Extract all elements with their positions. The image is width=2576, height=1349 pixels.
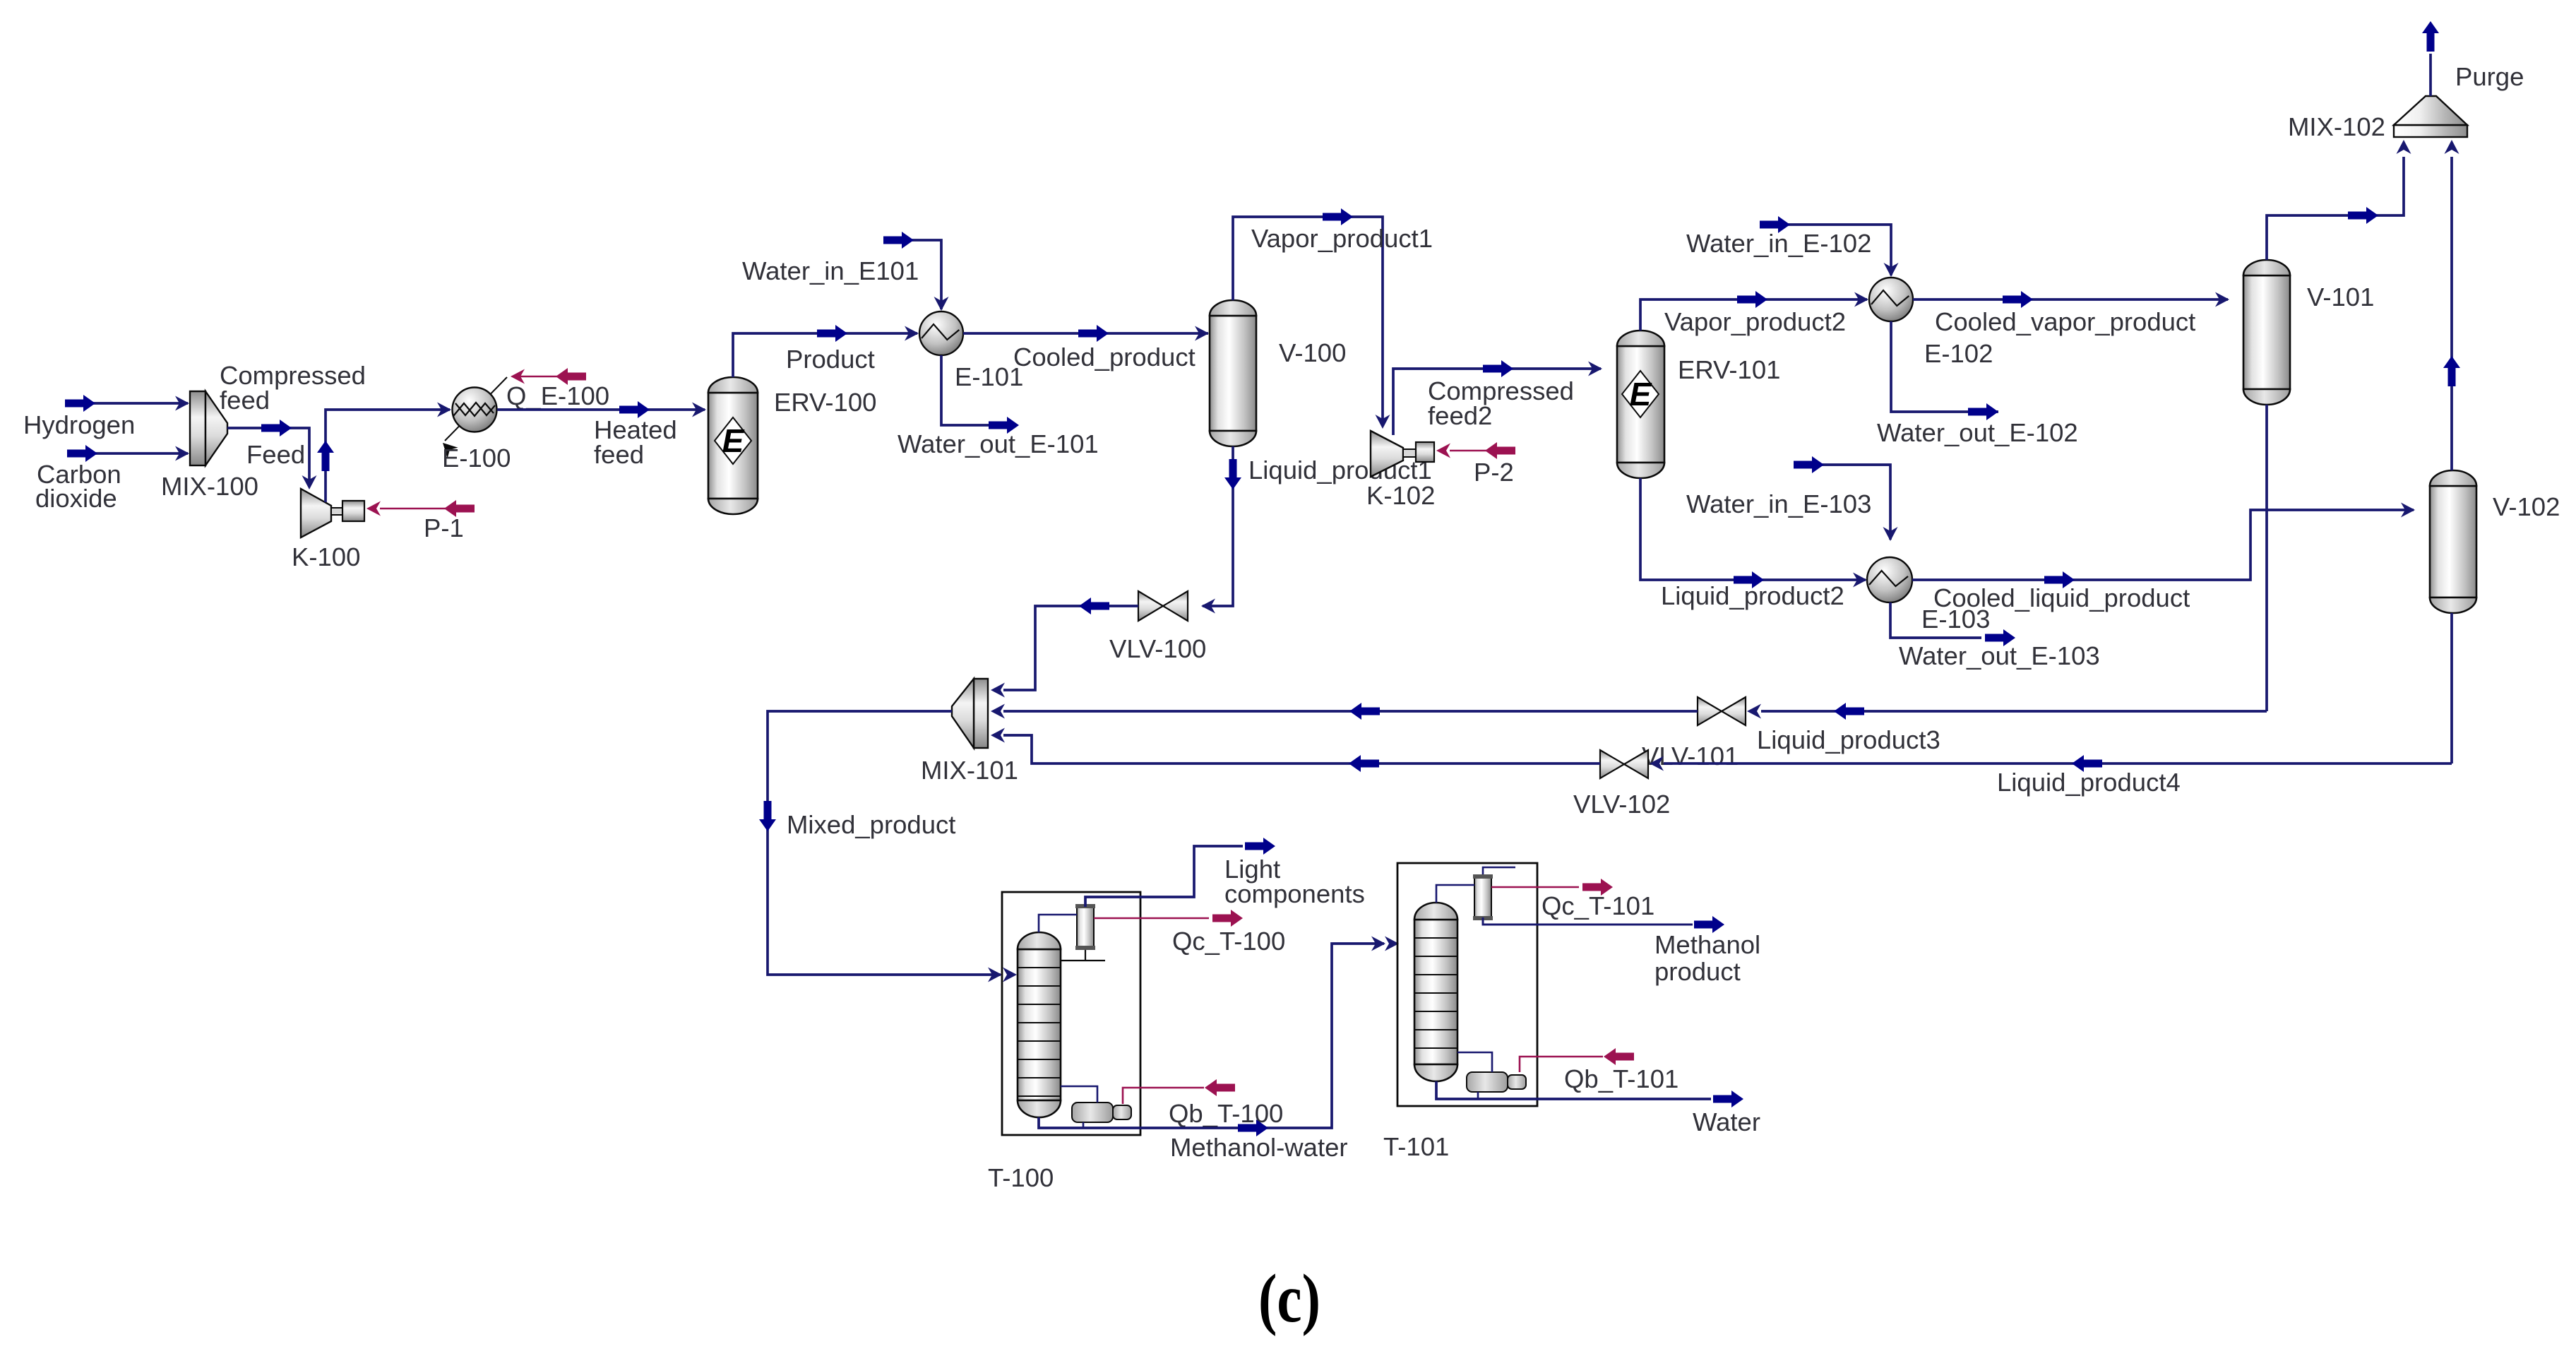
svg-text:Liquid_product2: Liquid_product2 [1661, 581, 1844, 610]
node Cooled_product label [1013, 343, 1195, 372]
svg-text:Water: Water [1693, 1107, 1760, 1136]
wire Cooled_product stream [963, 325, 1209, 342]
wire Heated feed stream [497, 401, 706, 418]
reactor ERV-101 [1617, 331, 1664, 478]
svg-text:Vapor_product2: Vapor_product2 [1664, 307, 1846, 336]
wire Liquid_product1 tail to MIX-101 [991, 598, 1138, 698]
svg-text:V-101: V-101 [2307, 283, 2374, 311]
valve VLV-100 [1138, 591, 1188, 621]
node Qb_T-100 label [1169, 1099, 1283, 1128]
svg-text:P-2: P-2 [1474, 458, 1514, 487]
svg-text:Cooled_vapor_product: Cooled_vapor_product [1935, 307, 2195, 336]
node T-101 label [1383, 1132, 1449, 1161]
wire V-101 bottoms [2265, 405, 2268, 711]
node Compressed feed2 label [1428, 376, 1574, 430]
wire Hydrogen stream [65, 395, 189, 412]
node VLV-101 label [1642, 742, 1739, 771]
node V-100 label [1279, 338, 1346, 367]
node Light components label [1224, 855, 1365, 908]
svg-text:Water_in_E-103: Water_in_E-103 [1686, 489, 1871, 518]
wire Liquid_product4 stream [991, 728, 2452, 773]
wire Methanol-water stream [1039, 937, 1399, 1137]
node Heated feed label [594, 415, 677, 469]
wire Water_out_E-102 stream [1891, 321, 1998, 420]
node Water label [1693, 1107, 1760, 1136]
node K-102 label [1366, 481, 1435, 510]
svg-text:T-100: T-100 [988, 1163, 1054, 1192]
svg-text:ERV-100: ERV-100 [774, 388, 876, 417]
svg-text:Qc_T-101: Qc_T-101 [1542, 891, 1654, 920]
wire Q_E-100 energy stream [511, 368, 586, 385]
wire T-101 bottoms to reboiler [1457, 1052, 1492, 1072]
valve VLV-102 [1600, 750, 1648, 778]
node MIX-100 label [161, 472, 258, 501]
node ERV-101 label [1678, 355, 1780, 384]
wire Cooled_liquid_product stream [1912, 503, 2415, 589]
wire V-101 overhead to MIX-102 [2267, 140, 2411, 260]
node Liquid_product2 label [1661, 581, 1844, 610]
svg-text:Methanol-water: Methanol-water [1170, 1133, 1348, 1162]
wire Qb_T-101 energy stream [1520, 1048, 1634, 1072]
node Product label [786, 345, 875, 374]
node ERV-100 label [774, 388, 876, 417]
wire T-101 condenser stub [1483, 867, 1515, 874]
svg-text:Water_in_E101: Water_in_E101 [742, 256, 919, 285]
node V-102 label [2493, 492, 2560, 521]
node Hydrogen label [23, 410, 135, 439]
cooler E-101 [919, 311, 963, 355]
wire Liquid_product3 stream [991, 703, 2267, 720]
svg-text:E: E [1630, 376, 1652, 412]
reboiler T-100 [1072, 1103, 1131, 1122]
node Vapor_product2 label [1664, 307, 1846, 336]
node Water_in_E-103 label [1686, 489, 1871, 518]
wire V-102 overhead to MIX-102 [2443, 140, 2460, 470]
svg-text:Mixed_product: Mixed_product [787, 810, 955, 839]
svg-text:ERV-101: ERV-101 [1678, 355, 1780, 384]
svg-text:components: components [1224, 879, 1365, 908]
svg-text:Cooled_product: Cooled_product [1013, 343, 1195, 372]
svg-text:Purge: Purge [2455, 62, 2524, 91]
node Cooled_liquid_product label [1933, 583, 2190, 612]
svg-text:Methanol: Methanol [1654, 930, 1760, 959]
svg-text:(c): (c) [1258, 1261, 1320, 1337]
svg-text:Feed: Feed [246, 440, 305, 469]
wire Qc_T-100 energy stream [1094, 910, 1243, 927]
svg-text:dioxide: dioxide [35, 484, 117, 513]
node Carbon dioxide label [35, 460, 121, 513]
wire T-100 tower to condenser [1039, 915, 1077, 932]
node Qb_T-101 label [1564, 1064, 1678, 1093]
heater E-100 [438, 377, 507, 458]
svg-text:MIX-102: MIX-102 [2288, 112, 2385, 141]
wire Light components stream [1085, 838, 1275, 907]
node Liquid_product3 label [1757, 725, 1940, 754]
svg-text:VLV-100: VLV-100 [1109, 634, 1206, 663]
wire Feed stream [227, 420, 317, 489]
svg-text:MIX-100: MIX-100 [161, 472, 258, 501]
wire Product stream [733, 325, 919, 377]
column T-100 subflowsheet box [1002, 892, 1140, 1135]
node Purge label [2455, 62, 2524, 91]
node Q_E-100 label [506, 381, 609, 410]
column T-101 subflowsheet box [1397, 863, 1537, 1106]
svg-text:VLV-102: VLV-102 [1573, 790, 1670, 819]
svg-text:Water_out_E-101: Water_out_E-101 [898, 429, 1099, 458]
node E-100 label [442, 444, 511, 473]
mixer MIX-100 [190, 391, 227, 465]
wire Vapor_product1 stream [1233, 208, 1390, 429]
separator V-101 [2243, 260, 2290, 405]
svg-text:Water_out_E-102: Water_out_E-102 [1877, 418, 2078, 447]
svg-text:Liquid_product3: Liquid_product3 [1757, 725, 1940, 754]
wire Compressed feed stream [317, 403, 451, 503]
node Mixed_product label [787, 810, 955, 839]
wire Water_out_E-103 stream [1890, 602, 2015, 646]
wire Qc_T-101 energy stream [1491, 879, 1613, 896]
svg-text:Vapor_product1: Vapor_product1 [1251, 224, 1433, 253]
mixer MIX-102 [2394, 96, 2467, 137]
node P-2 label [1474, 458, 1514, 487]
node V-101 label [2307, 283, 2374, 311]
node T-100 label [988, 1163, 1054, 1192]
wire V-102 bottoms [2450, 613, 2453, 763]
node Water_out_E-103 label [1899, 641, 2100, 670]
svg-text:Product: Product [786, 345, 875, 374]
node VLV-100 label [1109, 634, 1206, 663]
wire Liquid_product1 stream [1201, 446, 1241, 614]
node E-102 label [1924, 339, 1993, 368]
svg-text:K-100: K-100 [292, 542, 360, 571]
node Vapor_product1 label [1251, 224, 1433, 253]
node VLV-102 label [1573, 790, 1670, 819]
wire T-100 reboiler drain [1083, 1122, 1085, 1128]
node Compressed feed label [220, 361, 366, 415]
svg-text:product: product [1654, 957, 1741, 986]
node Water_in_E101 label [742, 256, 919, 285]
node Water_out_E-102 label [1877, 418, 2078, 447]
cooler E-102 [1869, 278, 1913, 321]
valve VLV-101 [1698, 697, 1746, 725]
wire Compressed feed2 stream [1393, 360, 1602, 435]
compressor K-100 [301, 489, 364, 537]
separator V-100 [1210, 300, 1256, 446]
svg-text:Hydrogen: Hydrogen [23, 410, 135, 439]
node E-103 label [1921, 605, 1990, 634]
wire T-101 tower to condenser [1436, 885, 1474, 903]
cooler E-103 [1867, 557, 1912, 602]
wire Qb_T-100 energy stream [1123, 1079, 1235, 1104]
reboiler T-101 [1467, 1072, 1526, 1092]
svg-text:Qb_T-101: Qb_T-101 [1564, 1064, 1678, 1093]
column T-100 tower [1018, 932, 1061, 1117]
column T-101 tower [1414, 903, 1457, 1081]
wire T-101 reboiler drain [1477, 1092, 1479, 1099]
wire Mixed_product stream [759, 711, 1017, 982]
svg-text:V-102: V-102 [2493, 492, 2560, 521]
node Water_out_E-101 label [898, 429, 1099, 458]
wire Water_in_E-102 stream [1760, 216, 1899, 277]
node Qc_T-101 label [1542, 891, 1654, 920]
wire T-100 reflux [1061, 950, 1105, 961]
svg-text:MIX-101: MIX-101 [921, 756, 1018, 785]
svg-text:T-101: T-101 [1383, 1132, 1449, 1161]
svg-text:Water_out_E-103: Water_out_E-103 [1899, 641, 2100, 670]
svg-text:Water_in_E-102: Water_in_E-102 [1686, 229, 1871, 258]
svg-text:Qb_T-100: Qb_T-100 [1169, 1099, 1283, 1128]
node Cooled_vapor_product label [1935, 307, 2195, 336]
svg-text:Liquid_product1: Liquid_product1 [1248, 456, 1432, 485]
svg-text:Cooled_liquid_product: Cooled_liquid_product [1933, 583, 2190, 612]
node Methanol-water label [1170, 1133, 1348, 1162]
wire Purge stream [2422, 21, 2439, 96]
wire Water stream [1436, 1081, 1743, 1107]
svg-text:V-100: V-100 [1279, 338, 1346, 367]
svg-text:Liquid_product4: Liquid_product4 [1997, 768, 2181, 797]
node MIX-102 label [2288, 112, 2385, 141]
wire Water_in_E101 stream [883, 232, 949, 311]
wire Vapor_product2 stream [1640, 291, 1868, 331]
wire P-1 energy stream [366, 500, 475, 517]
mixer MIX-101 [952, 679, 988, 748]
node K-100 label [292, 542, 360, 571]
node P-1 label [424, 513, 464, 542]
wire Liquid_product2 stream [1640, 478, 1867, 588]
svg-text:Q_E-100: Q_E-100 [506, 381, 609, 410]
node caption (c) [1258, 1261, 1320, 1337]
reactor ERV-100 [708, 377, 758, 514]
wire Water_out_E-101 stream [941, 355, 1019, 434]
svg-text:E-102: E-102 [1924, 339, 1993, 368]
node Qc_T-100 label [1172, 927, 1285, 956]
svg-text:P-1: P-1 [424, 513, 464, 542]
node Methanol product label [1654, 930, 1760, 986]
wire Methanol product stream [1483, 916, 1724, 933]
svg-text:feed: feed [594, 440, 644, 469]
wire T-100 bottoms to reboiler [1061, 1086, 1097, 1103]
separator V-102 [2430, 470, 2476, 613]
svg-text:feed2: feed2 [1428, 401, 1492, 430]
wire Water_in_E-103 stream [1794, 456, 1898, 541]
wire Carbon dioxide stream [67, 445, 189, 462]
compressor K-102 [1371, 431, 1434, 477]
node Liquid_product1 label [1248, 456, 1432, 485]
condenser T-101 [1473, 874, 1493, 920]
wire Cooled_vapor_product stream [1913, 291, 2229, 308]
svg-text:E: E [722, 422, 745, 459]
node Feed label [246, 440, 305, 469]
node Liquid_product4 label [1997, 768, 2181, 797]
svg-text:feed: feed [220, 386, 270, 415]
node E-101 label [955, 362, 1023, 391]
node Water_in_E-102 label [1686, 229, 1871, 258]
condenser T-100 [1075, 904, 1095, 950]
svg-text:E-100: E-100 [442, 444, 511, 473]
svg-text:K-102: K-102 [1366, 481, 1435, 510]
wire P-2 energy stream [1436, 442, 1515, 459]
svg-text:Qc_T-100: Qc_T-100 [1172, 927, 1285, 956]
node MIX-101 label [921, 756, 1018, 785]
